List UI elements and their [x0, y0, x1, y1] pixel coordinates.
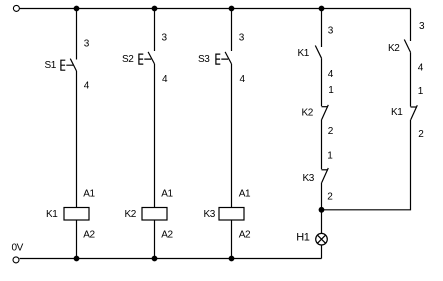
pushbutton S3 — [216, 52, 232, 64]
terminal bottom-left 0V — [13, 257, 19, 263]
svg-text:0V: 0V — [12, 243, 24, 254]
svg-text:K1: K1 — [391, 107, 403, 118]
svg-text:K1: K1 — [46, 209, 58, 220]
wire branch1 lower — [76, 220, 78, 259]
coil K1 — [64, 208, 89, 221]
svg-text:1: 1 — [327, 151, 333, 162]
svg-text:K3: K3 — [303, 173, 315, 184]
svg-text:4: 4 — [162, 74, 168, 85]
terminal top-left — [13, 5, 19, 11]
svg-text:K2: K2 — [125, 209, 137, 220]
svg-text:K1: K1 — [298, 48, 310, 59]
wire branch3 upper — [231, 9, 233, 52]
svg-text:3: 3 — [84, 39, 90, 50]
svg-text:A1: A1 — [161, 188, 173, 199]
svg-text:H1: H1 — [296, 232, 309, 244]
wire branch4 upper — [321, 9, 323, 48]
node junction top rail branch2 — [152, 6, 158, 12]
wire branch2 middle — [154, 64, 156, 208]
wire branch2 lower — [154, 220, 156, 259]
svg-text:A1: A1 — [239, 188, 251, 199]
pushbutton S1 — [61, 59, 77, 71]
svg-text:3: 3 — [328, 26, 334, 37]
contact K1 NO — [315, 46, 321, 59]
svg-text:S1: S1 — [45, 60, 57, 71]
wire branch2 upper — [154, 9, 156, 52]
wire branch5 seg2 — [410, 52, 412, 106]
wire bottom rail — [20, 258, 322, 260]
contact K2 NC — [322, 105, 329, 120]
wire branch4 seg3 — [321, 120, 323, 170]
svg-text:4: 4 — [328, 69, 334, 80]
svg-text:1: 1 — [418, 86, 424, 97]
svg-text:A2: A2 — [161, 229, 173, 240]
wire branch5 lower — [322, 120, 411, 210]
node junction top rail branch3 — [229, 6, 235, 12]
node junction top rail branch1 — [74, 6, 80, 12]
svg-text:A2: A2 — [239, 229, 251, 240]
wire branch5 upper — [410, 9, 412, 42]
contact K3 NC — [322, 168, 329, 183]
svg-text:S2: S2 — [122, 54, 134, 65]
svg-text:4: 4 — [84, 81, 90, 92]
svg-text:K2: K2 — [302, 108, 314, 119]
coil K3 — [219, 208, 244, 221]
pushbutton S2 — [139, 52, 155, 64]
svg-text:3: 3 — [239, 33, 245, 44]
wire branch3 lower — [231, 220, 233, 259]
node junction bottom rail branch3 — [229, 256, 235, 262]
wire branch4 seg2 — [321, 58, 323, 106]
wire top rail — [20, 8, 411, 10]
svg-text:K2: K2 — [388, 43, 400, 54]
contact K2 NO — [404, 40, 410, 53]
wire branch4 lower — [321, 245, 323, 259]
wire branch3 middle — [231, 64, 233, 208]
svg-text:2: 2 — [418, 129, 424, 140]
contact K1 NC — [411, 105, 418, 120]
svg-text:2: 2 — [327, 192, 333, 203]
svg-text:1: 1 — [328, 85, 334, 96]
svg-text:K3: K3 — [204, 209, 216, 220]
svg-text:4: 4 — [418, 63, 424, 74]
lamp H1 — [316, 233, 328, 245]
node junction branch4-branch5 — [319, 207, 325, 213]
svg-text:A2: A2 — [83, 229, 95, 240]
svg-text:3: 3 — [162, 33, 168, 44]
svg-text:4: 4 — [240, 74, 246, 85]
wire branch4 seg4 — [321, 183, 323, 234]
coil K2 — [142, 208, 167, 221]
svg-text:A1: A1 — [83, 188, 95, 199]
svg-text:2: 2 — [328, 126, 334, 137]
node junction bottom rail branch1 — [74, 256, 80, 262]
svg-text:S3: S3 — [198, 54, 210, 65]
wire branch1 middle — [76, 71, 78, 208]
wire branch1 upper — [76, 9, 78, 60]
node junction bottom rail branch2 — [152, 256, 158, 262]
svg-text:3: 3 — [419, 21, 425, 32]
node junction top rail branch4 — [319, 6, 325, 12]
